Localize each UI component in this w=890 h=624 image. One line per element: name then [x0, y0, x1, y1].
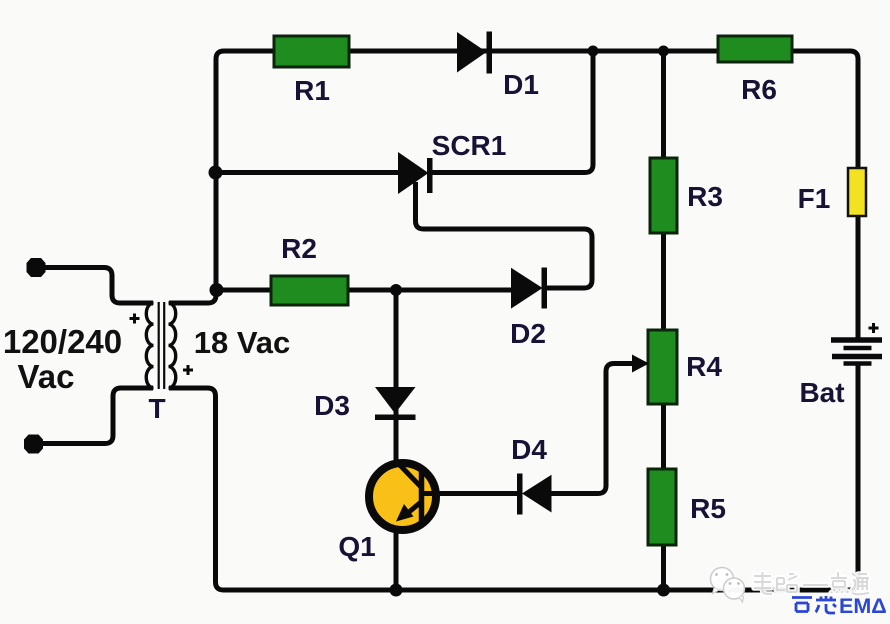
svg-text:R2: R2 [281, 233, 317, 264]
svg-text:D3: D3 [314, 390, 350, 421]
svg-text:R6: R6 [741, 74, 777, 105]
svg-text:D4: D4 [511, 434, 547, 465]
svg-text:D2: D2 [510, 318, 546, 349]
svg-text:Q1: Q1 [338, 531, 375, 562]
svg-text:R5: R5 [690, 493, 726, 524]
svg-text:R4: R4 [686, 351, 722, 382]
svg-text:120/240: 120/240 [3, 323, 122, 360]
svg-text:R3: R3 [687, 181, 723, 212]
svg-text:D1: D1 [503, 69, 539, 100]
svg-text:Bat: Bat [799, 377, 844, 408]
svg-text:SCR1: SCR1 [432, 130, 507, 161]
svg-text:R1: R1 [294, 75, 330, 106]
svg-text:EMΔ: EMΔ [839, 594, 887, 618]
svg-text:18 Vac: 18 Vac [194, 325, 291, 360]
svg-text:F1: F1 [798, 183, 831, 214]
svg-text:T: T [148, 393, 165, 424]
svg-text:Vac: Vac [18, 358, 75, 395]
